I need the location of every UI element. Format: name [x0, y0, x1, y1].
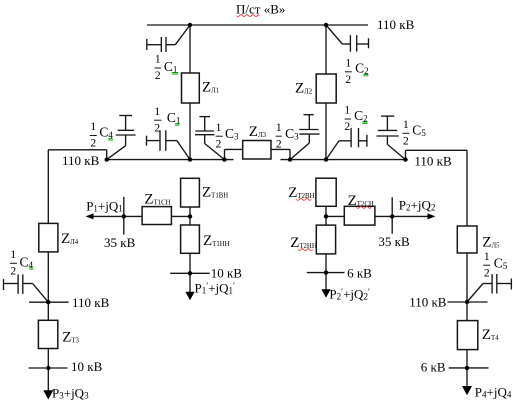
svg-text:1: 1	[276, 122, 282, 134]
svg-text:6 кВ: 6 кВ	[421, 360, 446, 375]
svg-text:6 кВ: 6 кВ	[347, 266, 372, 281]
svg-text:2: 2	[90, 138, 96, 150]
svg-text:110 кВ: 110 кВ	[62, 153, 100, 168]
svg-text:35 кВ: 35 кВ	[104, 235, 136, 250]
svg-text:110 кВ: 110 кВ	[377, 17, 415, 32]
svg-text:2: 2	[484, 267, 490, 279]
svg-text:1: 1	[216, 122, 222, 134]
svg-text:1: 1	[345, 58, 351, 70]
svg-text:110 кВ: 110 кВ	[414, 154, 452, 169]
svg-text:1: 1	[154, 106, 160, 118]
svg-text:2: 2	[154, 122, 160, 134]
svg-text:110 кВ: 110 кВ	[409, 295, 447, 310]
svg-text:2: 2	[155, 70, 161, 82]
svg-text:1: 1	[403, 119, 409, 131]
svg-text:P2+jQ2: P2+jQ2	[399, 198, 436, 213]
svg-text:2: 2	[403, 136, 409, 148]
svg-text:10 кВ: 10 кВ	[71, 359, 103, 374]
svg-text:1: 1	[484, 251, 490, 263]
svg-text:1: 1	[155, 54, 161, 66]
svg-text:35 кВ: 35 кВ	[378, 234, 410, 249]
svg-text:1: 1	[344, 105, 350, 117]
svg-text:P4+jQ4: P4+jQ4	[475, 385, 512, 400]
svg-text:2: 2	[216, 138, 222, 150]
svg-text:2: 2	[344, 121, 350, 133]
svg-text:1: 1	[10, 249, 16, 261]
svg-text:110 кВ: 110 кВ	[72, 295, 110, 310]
svg-text:2: 2	[276, 138, 282, 150]
svg-text:1: 1	[90, 121, 96, 133]
svg-text:10 кВ: 10 кВ	[211, 266, 243, 281]
svg-text:2: 2	[10, 266, 16, 278]
svg-text:P3+jQ3: P3+jQ3	[52, 386, 89, 401]
svg-text:2: 2	[345, 74, 351, 86]
svg-text:P1+jQ1: P1+jQ1	[86, 198, 123, 213]
svg-text:П/ст «В»: П/ст «В»	[236, 2, 285, 17]
